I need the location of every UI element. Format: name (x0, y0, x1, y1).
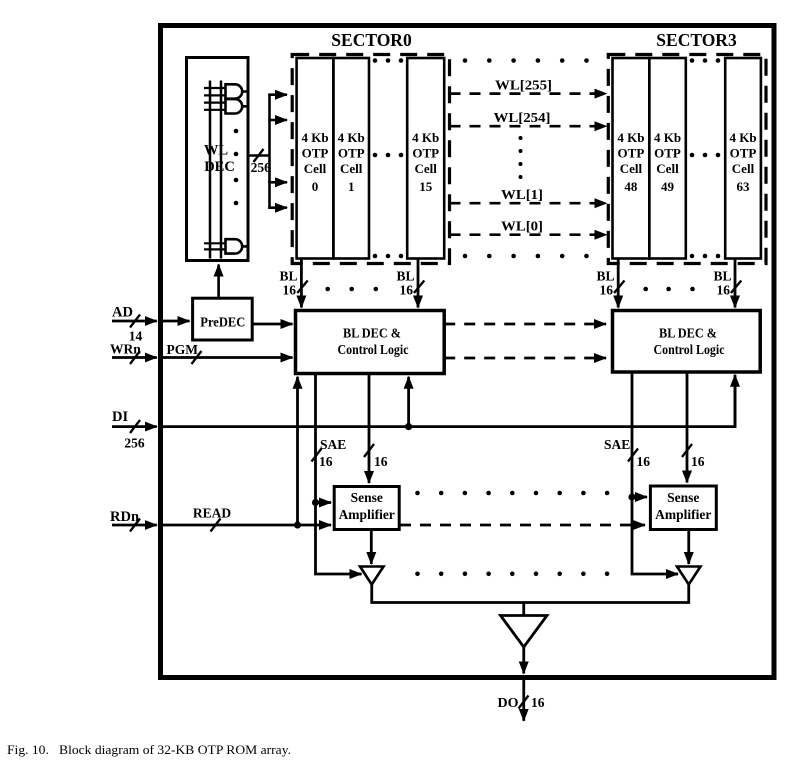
slash data16 left (364, 444, 374, 457)
svg-text:WL: WL (204, 143, 229, 159)
cell block 15 (407, 58, 444, 259)
wire WL[0] dashed (450, 233, 607, 236)
wire AD input (112, 320, 157, 323)
svg-text:BL: BL (279, 269, 297, 284)
arrow sense to tri left (370, 530, 373, 565)
AND gate G3 inputs (204, 243, 226, 249)
wire bus to out buffer (522, 603, 525, 616)
arrow DI into right BLDEC (734, 375, 737, 427)
AND gate G2 (226, 99, 249, 113)
slash BL cell15 (414, 281, 424, 294)
inter-sector ellipsis top (463, 58, 589, 63)
svg-text:Sense: Sense (351, 490, 383, 505)
wire DI input (112, 425, 157, 428)
svg-text:16: 16 (691, 454, 705, 469)
cell block 63 (725, 58, 761, 259)
slash RDn (130, 519, 140, 532)
svg-text:Fig. 10. Block diagram of 32: Fig. 10. Block diagram of 32-KB OTP ROM … (7, 742, 291, 757)
slash WRn (130, 351, 140, 364)
AND gate G3 (226, 239, 249, 253)
svg-text:SAE: SAE (320, 437, 346, 452)
wire BL cell0 (300, 259, 303, 308)
wire BL cell63 (734, 259, 737, 308)
arrow SAE into sense right (632, 496, 647, 499)
triangle ellipsis row (415, 572, 609, 577)
svg-text:SECTOR0: SECTOR0 (331, 30, 412, 50)
svg-text:16: 16 (374, 454, 388, 469)
wire BL cell48 (617, 259, 620, 308)
wire SAE right (632, 373, 678, 574)
svg-text:WL[255]: WL[255] (495, 78, 552, 93)
arrow out buffer to frame (522, 646, 525, 674)
wire SAE left (316, 375, 362, 574)
wire READ (160, 524, 331, 527)
slash BL cell63 (731, 281, 741, 294)
PreDEC box (193, 298, 253, 340)
svg-text:16: 16 (400, 283, 414, 298)
BL ellipsis left (325, 287, 378, 292)
svg-text:SAE: SAE (604, 437, 630, 452)
BL DEC box left (296, 311, 445, 374)
wire BL cell15 (417, 259, 420, 308)
cell block 48 (613, 58, 650, 259)
tristate buffer right (677, 567, 701, 585)
inter-sector ellipsis bottom (463, 254, 589, 259)
WL branch arrow 3 (268, 181, 287, 184)
slash AD (130, 315, 140, 328)
wire WL[255] dashed (450, 92, 607, 95)
slash data16 right (682, 444, 692, 457)
wire PreDEC to BLDEC (252, 323, 292, 326)
svg-text:DEC: DEC (204, 159, 235, 175)
WL vertical ellipsis (519, 136, 523, 179)
svg-text:AD: AD (112, 305, 133, 321)
AND gate G1 inputs (204, 88, 226, 95)
sense amp box right (650, 486, 716, 530)
cell block 1 (333, 58, 369, 259)
sector0 ellipsis dots (373, 58, 404, 258)
svg-text:Control Logic: Control Logic (654, 342, 725, 357)
wire RDn input (112, 524, 157, 527)
junction READ (294, 521, 301, 528)
svg-text:16: 16 (600, 283, 614, 298)
slash DI (130, 420, 140, 433)
svg-text:BL: BL (596, 269, 614, 284)
svg-text:RDn: RDn (110, 509, 139, 525)
svg-text:WL[254]: WL[254] (494, 110, 551, 125)
dashed wire BLDEC link lower (444, 357, 606, 360)
SECTOR0 dashed boundary (292, 55, 449, 264)
svg-text:DO: DO (498, 696, 519, 711)
WL branch arrow 4 (268, 206, 287, 209)
svg-text:BL: BL (396, 269, 414, 284)
WL decoder box U-WLDEC (187, 58, 249, 261)
svg-text:WL[1]: WL[1] (501, 187, 543, 202)
wire DI bus (160, 378, 735, 427)
slash PGM (192, 351, 202, 364)
wire PreDEC to WLDEC (217, 265, 220, 299)
wire WL[1] dashed (450, 202, 607, 205)
svg-text:Amplifier: Amplifier (339, 507, 395, 522)
SECTOR3 dashed boundary (608, 55, 766, 264)
svg-text:16: 16 (531, 695, 545, 710)
address bus wire B (220, 81, 223, 259)
BL DEC box right (613, 311, 761, 373)
arrow SAE to tri left (350, 573, 362, 576)
svg-text:16: 16 (637, 454, 651, 469)
svg-text:16: 16 (717, 283, 731, 298)
arrow DI into left BLDEC (407, 377, 410, 427)
svg-text:Control Logic: Control Logic (338, 342, 409, 357)
WL branch arrow 1 (268, 93, 287, 96)
output bus wire (372, 583, 689, 603)
wire data16 left (368, 375, 371, 483)
svg-text:256: 256 (251, 160, 272, 175)
slash 256 bus (254, 149, 264, 162)
svg-text:256: 256 (124, 436, 145, 451)
slash DO (519, 696, 529, 709)
wire AD to PreDEC (160, 320, 190, 323)
svg-text:Amplifier: Amplifier (655, 507, 711, 522)
WL branch arrow 2 (268, 119, 287, 122)
arrow sense to tri right (687, 530, 690, 565)
svg-text:PreDEC: PreDEC (200, 316, 245, 331)
output buffer U-OUT (501, 616, 548, 648)
svg-text:BL DEC &: BL DEC & (343, 326, 401, 341)
slash SAE right (628, 449, 638, 462)
slash READ (211, 519, 221, 532)
svg-text:16: 16 (283, 283, 297, 298)
sector3 ellipsis dots (690, 58, 721, 258)
slash SAE left (312, 449, 322, 462)
junction SAE right (628, 493, 635, 500)
wire data16 right (686, 373, 689, 483)
wire PGM (160, 356, 293, 359)
svg-text:DI: DI (112, 409, 128, 425)
AND gate G1 (226, 84, 249, 98)
svg-text:READ: READ (193, 506, 232, 521)
svg-text:PGM: PGM (167, 342, 199, 357)
sense amp box left (334, 487, 399, 530)
cell block 0 (297, 58, 334, 259)
svg-text:WL[0]: WL[0] (501, 219, 543, 234)
svg-text:16: 16 (319, 454, 333, 469)
svg-text:SECTOR3: SECTOR3 (656, 30, 737, 50)
junction DI left (405, 423, 412, 430)
cell block 49 (649, 58, 686, 259)
arrow SAE to tri right (666, 573, 678, 576)
tristate buffer left (360, 567, 384, 585)
dashed wire BLDEC link upper (444, 323, 606, 326)
svg-text:BL DEC &: BL DEC & (659, 326, 717, 341)
wire WL[254] dashed (450, 125, 607, 128)
svg-text:BL: BL (713, 269, 731, 284)
BL ellipsis right (643, 287, 694, 292)
dashed wire sense link (400, 524, 645, 527)
wire WRn input (112, 356, 157, 359)
wire READ up to BLDEC (296, 377, 299, 525)
WL DEC ellipsis dots (234, 129, 239, 206)
junction SAE left (312, 499, 319, 506)
address bus wire A (209, 81, 212, 259)
outer frame (161, 26, 775, 678)
sense ellipsis row (415, 491, 609, 496)
wire DO output (522, 677, 525, 721)
arrow SAE into sense left (316, 501, 332, 504)
svg-text:Sense: Sense (667, 490, 699, 505)
slash BL cell48 (614, 281, 624, 294)
wire WDEC to driver (248, 154, 270, 157)
driver trunk wire (268, 95, 271, 208)
slash BL cell0 (297, 281, 307, 294)
AND gate G2 inputs (204, 103, 226, 110)
